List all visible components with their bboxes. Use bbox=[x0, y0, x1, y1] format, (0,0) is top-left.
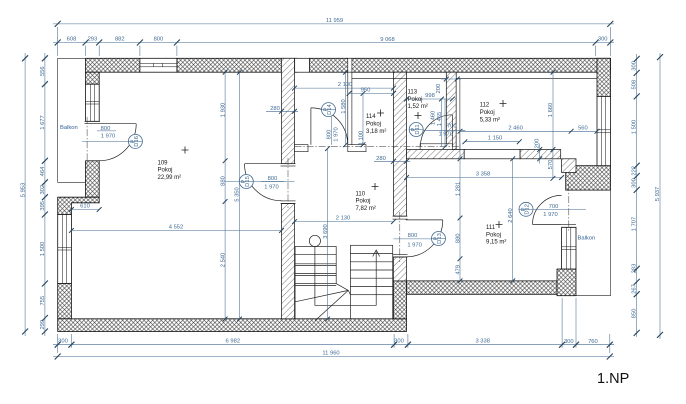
svg-text:299: 299 bbox=[40, 320, 46, 330]
dimension lines bbox=[25, 24, 660, 357]
window LW1 in left wall upper bbox=[86, 84, 100, 121]
svg-text:1 970: 1 970 bbox=[543, 212, 558, 218]
svg-text:300: 300 bbox=[394, 339, 404, 345]
wall D jamb caps at door D13 bbox=[393, 215, 408, 217]
svg-text:1 970: 1 970 bbox=[333, 127, 339, 142]
svg-text:Pokoj: Pokoj bbox=[158, 168, 173, 174]
window RW1 in right wall bbox=[597, 96, 611, 165]
interior dim 4 552 bbox=[71, 230, 281, 232]
interior dim vertical room 111 chain bbox=[459, 143, 461, 281]
svg-text:880: 880 bbox=[455, 233, 461, 243]
svg-text:Pokoj: Pokoj bbox=[480, 110, 495, 116]
door tag circle D12 bbox=[519, 202, 533, 216]
door tag circle D11 bbox=[409, 123, 423, 137]
interior dim 610 bbox=[71, 209, 99, 211]
svg-text:800: 800 bbox=[154, 36, 164, 42]
svg-text:800: 800 bbox=[101, 126, 111, 132]
svg-text:464: 464 bbox=[40, 166, 46, 176]
extension lines top bbox=[57, 27, 59, 56]
svg-text:700: 700 bbox=[549, 204, 559, 210]
room center plus marks bbox=[182, 100, 507, 228]
interior dim 2 130 hall upper bbox=[295, 87, 394, 89]
bottom wall right band bbox=[407, 281, 558, 294]
top wall right segment bbox=[310, 58, 611, 72]
svg-text:D12: D12 bbox=[525, 204, 531, 215]
svg-text:3,18 m²: 3,18 m² bbox=[366, 129, 386, 135]
door D16 leaf and arc (left wall) bbox=[99, 124, 136, 161]
svg-text:114: 114 bbox=[366, 114, 376, 120]
svg-text:5,33 m²: 5,33 m² bbox=[480, 117, 500, 123]
svg-text:395: 395 bbox=[40, 201, 46, 211]
svg-text:610: 610 bbox=[80, 203, 90, 209]
right chain dim bbox=[636, 54, 638, 337]
door tag circle D15 bbox=[239, 175, 253, 189]
svg-text:5 350: 5 350 bbox=[235, 187, 241, 202]
svg-text:700: 700 bbox=[447, 124, 457, 130]
svg-text:1 970: 1 970 bbox=[101, 133, 116, 139]
svg-text:760: 760 bbox=[588, 339, 598, 345]
dimension ticks left chains bbox=[22, 55, 28, 61]
door D12 leaf and arc (balcony) bbox=[533, 195, 562, 224]
svg-text:1 281: 1 281 bbox=[455, 182, 461, 197]
svg-text:280: 280 bbox=[270, 106, 280, 112]
svg-text:200: 200 bbox=[535, 139, 541, 149]
window LW2 in left wall lower bbox=[58, 215, 72, 284]
bottom outer dim 11 960 bbox=[53, 356, 614, 358]
interior dim 280 wall D bbox=[374, 160, 410, 162]
extension lines bottom bbox=[57, 334, 59, 353]
svg-text:800: 800 bbox=[408, 233, 418, 239]
svg-text:1 707: 1 707 bbox=[632, 217, 638, 232]
svg-text:302: 302 bbox=[40, 185, 46, 195]
svg-text:882: 882 bbox=[115, 36, 125, 42]
svg-text:9 068: 9 068 bbox=[380, 37, 395, 43]
svg-text:3 358: 3 358 bbox=[476, 171, 491, 177]
svg-text:4 552: 4 552 bbox=[169, 224, 184, 230]
svg-text:109: 109 bbox=[158, 160, 169, 166]
svg-text:280: 280 bbox=[376, 156, 386, 162]
interior dim 998 room 113 bbox=[407, 98, 453, 100]
door D11 threshold in wall G2 bbox=[420, 144, 452, 150]
wall G2 white piece (1150) bbox=[464, 150, 520, 159]
svg-text:1,52 m²: 1,52 m² bbox=[408, 104, 428, 110]
partition B passing through top wall bbox=[348, 58, 352, 72]
interior dim 570 bbox=[552, 150, 554, 179]
left chain dim bbox=[44, 53, 46, 336]
door tag circle D13 bbox=[432, 232, 446, 246]
svg-text:2 540: 2 540 bbox=[220, 253, 226, 268]
wall G1 jamb block left (at wall A) bbox=[295, 145, 309, 152]
bottom step connector band bbox=[394, 281, 407, 319]
left wall lower segment below window bbox=[58, 284, 72, 319]
svg-text:998: 998 bbox=[425, 93, 435, 99]
inner face line of thicker top wall over rooms 114-112 bbox=[352, 78, 597, 80]
interior dim 1 660 bbox=[552, 72, 554, 149]
wall G2 hatched piece right bbox=[520, 150, 561, 159]
door tag circle D14 bbox=[322, 103, 336, 117]
interior dim 1 100 bbox=[362, 93, 364, 144]
window W1 in top wall bbox=[140, 58, 177, 72]
svg-text:293: 293 bbox=[88, 36, 98, 42]
svg-text:1 100: 1 100 bbox=[358, 131, 364, 146]
interior wall D upper (hall / rooms 113-111) bbox=[394, 72, 407, 216]
svg-text:850: 850 bbox=[632, 309, 638, 319]
door D14 leaf and arc (alcove) bbox=[311, 108, 348, 145]
svg-text:222: 222 bbox=[632, 166, 638, 176]
svg-text:D15: D15 bbox=[245, 176, 251, 187]
svg-text:300: 300 bbox=[632, 61, 638, 71]
svg-text:Pokoj: Pokoj bbox=[486, 232, 501, 238]
interior dim 1 580 alcove bbox=[345, 72, 347, 145]
svg-text:D13: D13 bbox=[437, 233, 443, 244]
interior dim verticals room 109 bbox=[224, 72, 226, 319]
svg-text:950: 950 bbox=[361, 87, 371, 93]
left balcony slab outline bbox=[58, 58, 86, 182]
bottom wall left band bbox=[58, 319, 407, 332]
svg-text:D16: D16 bbox=[134, 136, 140, 147]
wall A jamb caps at door D15 bbox=[281, 163, 296, 165]
left step block bbox=[58, 197, 99, 214]
interior wall D lower below door D13 bbox=[394, 257, 407, 281]
door tag circle D16 bbox=[128, 134, 142, 148]
svg-text:Pokoj: Pokoj bbox=[408, 97, 423, 103]
svg-text:608: 608 bbox=[67, 36, 77, 42]
svg-text:880: 880 bbox=[220, 176, 226, 186]
svg-text:1 150: 1 150 bbox=[488, 136, 503, 142]
svg-text:5 953: 5 953 bbox=[21, 183, 27, 198]
svg-text:11 959: 11 959 bbox=[326, 18, 343, 24]
door D15 leaf and arc (wall A) bbox=[245, 164, 282, 201]
interior dimension ticks bbox=[223, 70, 228, 75]
svg-text:7,82 m²: 7,82 m² bbox=[356, 206, 376, 212]
dimension texts rotated bbox=[21, 61, 661, 329]
sill lines at balcony door D12 bbox=[562, 223, 576, 225]
interior dims 1 460 / 1 465 bbox=[441, 99, 443, 147]
svg-text:2 640: 2 640 bbox=[508, 208, 514, 223]
svg-text:22,99 m²: 22,99 m² bbox=[158, 175, 182, 181]
top wall mid segment bbox=[177, 58, 297, 72]
room 112 left partition strip bbox=[456, 79, 460, 150]
partition B (alcove / room 114) bbox=[348, 72, 352, 152]
svg-text:267: 267 bbox=[632, 284, 638, 294]
bottom right corner block at balcony bbox=[557, 269, 576, 296]
svg-text:Balkon: Balkon bbox=[60, 125, 78, 131]
svg-text:112: 112 bbox=[480, 103, 490, 109]
stairs left flight bbox=[295, 247, 336, 319]
top wall left segment bbox=[86, 58, 140, 72]
wall G2 hatched piece under room 113 bbox=[407, 150, 465, 159]
door size texts bbox=[101, 124, 559, 249]
svg-text:2 130: 2 130 bbox=[338, 82, 353, 88]
interior dim 200 wall E bbox=[441, 78, 461, 80]
svg-text:1 970: 1 970 bbox=[407, 243, 422, 249]
top outer dim 11 959 bbox=[53, 23, 614, 25]
interior dim 2 460 / 560 bbox=[460, 130, 597, 132]
svg-text:560: 560 bbox=[578, 125, 588, 131]
interior dim 3 358 bbox=[407, 177, 562, 179]
dimension texts horizontal bbox=[58, 18, 607, 356]
dimension ticks right chains bbox=[634, 56, 640, 62]
svg-text:300: 300 bbox=[598, 36, 608, 42]
svg-text:1 970: 1 970 bbox=[438, 132, 453, 138]
svg-text:111: 111 bbox=[486, 225, 496, 231]
right wall top corner block bbox=[597, 58, 611, 96]
interior wall A lower bbox=[282, 204, 295, 319]
interior dim 280 wall A bbox=[266, 110, 298, 112]
stairs right flight bbox=[350, 245, 392, 318]
svg-text:1 580: 1 580 bbox=[341, 99, 347, 114]
left wall corner block bbox=[86, 72, 100, 84]
svg-text:9,15 m²: 9,15 m² bbox=[486, 240, 506, 246]
right balcony slab outline bbox=[576, 190, 611, 296]
svg-text:283: 283 bbox=[632, 264, 638, 274]
door D13 leaf and arc (room 111) bbox=[406, 220, 443, 257]
svg-text:1 660: 1 660 bbox=[548, 103, 554, 118]
right outer dim 5 937 bbox=[659, 53, 661, 339]
svg-text:1 460: 1 460 bbox=[431, 111, 437, 126]
svg-text:Pokoj: Pokoj bbox=[366, 122, 381, 128]
wall G1 block between D14 and room114 opening bbox=[348, 145, 366, 152]
svg-text:508: 508 bbox=[632, 80, 638, 90]
svg-text:300: 300 bbox=[632, 178, 638, 188]
svg-text:1.NP: 1.NP bbox=[597, 371, 629, 387]
svg-text:D14: D14 bbox=[327, 104, 333, 115]
svg-text:755: 755 bbox=[40, 296, 46, 306]
svg-text:3 338: 3 338 bbox=[475, 339, 490, 345]
svg-text:200: 200 bbox=[436, 84, 442, 94]
interior dim 2 640 bbox=[512, 159, 514, 281]
top chain dim row bbox=[53, 42, 614, 44]
svg-text:2 130: 2 130 bbox=[336, 215, 351, 221]
stair walk line with start circle and arrow bbox=[309, 235, 379, 305]
svg-text:1 970: 1 970 bbox=[264, 184, 279, 190]
interior dim 2 130 hall lower bbox=[295, 221, 394, 223]
interior dim 3 690 stairs bbox=[327, 149, 329, 319]
interior dim 200 wall G2 bbox=[539, 144, 541, 164]
sill lines under LW1 / door D16 head bbox=[85, 120, 101, 122]
svg-text:110: 110 bbox=[356, 191, 366, 197]
svg-text:6 982: 6 982 bbox=[226, 339, 241, 345]
door D11 leaf and arc (room 113) bbox=[420, 115, 452, 147]
balcony wall window BW (room 111 side window) bbox=[562, 227, 576, 269]
svg-text:11 960: 11 960 bbox=[322, 350, 339, 356]
interior dim 1 150 bbox=[465, 141, 519, 143]
svg-text:3 690: 3 690 bbox=[323, 224, 329, 239]
svg-text:300: 300 bbox=[58, 339, 68, 345]
interior dim 950 bbox=[349, 92, 393, 94]
svg-text:1 677: 1 677 bbox=[40, 115, 46, 130]
axis dash-dot lines bbox=[87, 117, 569, 262]
left wall segment below door D16 bbox=[86, 161, 100, 197]
svg-text:479: 479 bbox=[455, 265, 461, 275]
svg-text:113: 113 bbox=[408, 90, 418, 96]
svg-text:2 460: 2 460 bbox=[508, 125, 523, 131]
stair winder lines bbox=[295, 284, 350, 321]
svg-text:5 937: 5 937 bbox=[655, 187, 661, 202]
svg-text:1 930: 1 930 bbox=[220, 103, 226, 118]
svg-text:570: 570 bbox=[548, 160, 554, 170]
svg-text:1 500: 1 500 bbox=[632, 120, 638, 135]
svg-text:1 465: 1 465 bbox=[437, 112, 443, 127]
dimension ticks top rows bbox=[55, 21, 61, 27]
top wall duct niche bbox=[295, 58, 310, 72]
balcony wall top piece bbox=[562, 159, 576, 173]
interior wall A upper (room109 / hall) bbox=[282, 58, 295, 163]
svg-text:800: 800 bbox=[327, 130, 333, 140]
left outer dim 5 953 bbox=[24, 53, 26, 336]
dimension ticks bottom rows bbox=[55, 342, 61, 348]
svg-text:300: 300 bbox=[564, 339, 574, 345]
wall E between rooms 113 and 112 bbox=[446, 72, 456, 149]
svg-text:D11: D11 bbox=[415, 124, 421, 134]
bottom chain dim row bbox=[53, 344, 614, 346]
exterior walls bbox=[58, 58, 611, 331]
svg-text:Pokoj: Pokoj bbox=[356, 199, 371, 205]
svg-text:Balkon: Balkon bbox=[578, 236, 596, 242]
room labels bbox=[158, 90, 507, 246]
svg-text:556: 556 bbox=[40, 66, 46, 76]
door leader lines bbox=[82, 117, 586, 239]
right wall block above balcony door bbox=[566, 166, 611, 190]
svg-text:1 500: 1 500 bbox=[40, 242, 46, 257]
